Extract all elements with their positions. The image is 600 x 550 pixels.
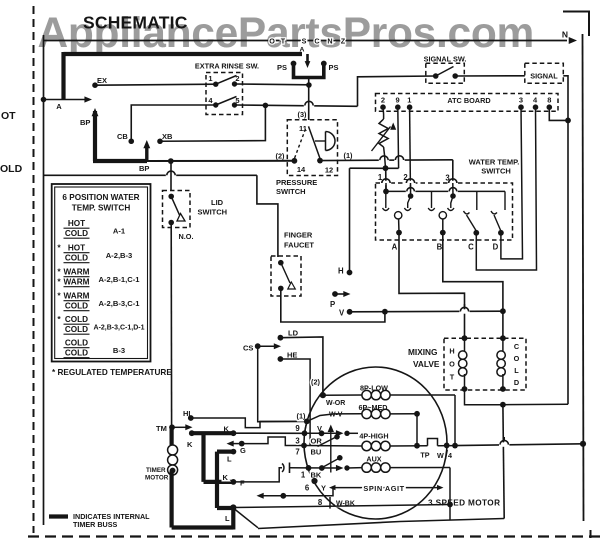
finger faucet top contact <box>278 260 284 266</box>
svg-text:W: W <box>437 451 444 460</box>
node: left top corner stub <box>43 35 45 41</box>
svg-text:EXTRA RINSE SW.: EXTRA RINSE SW. <box>195 62 259 71</box>
svg-text:K: K <box>223 473 229 482</box>
wire: extra rinse 2 to pressure switch stem node <box>235 83 310 86</box>
svg-text:BK: BK <box>311 471 322 480</box>
pressure switch terminal 14 <box>292 158 298 164</box>
svg-text:COLD: COLD <box>65 229 88 238</box>
wire: valve common to right inner rail <box>503 403 568 406</box>
timer buss BP: thick vertical with up arrow <box>92 108 99 116</box>
terminal P with arrow <box>332 291 338 297</box>
svg-text:MOTOR: MOTOR <box>145 475 169 482</box>
svg-text:N: N <box>327 37 332 46</box>
node: L / W-BK junction <box>230 504 236 510</box>
legend: thick sample line <box>49 514 68 518</box>
svg-text:(2): (2) <box>311 378 320 387</box>
svg-text:A: A <box>392 243 398 252</box>
svg-text:COLD: COLD <box>65 302 88 311</box>
hop: contact5 line over PS stem <box>304 103 314 107</box>
switch: LID SWITCH dashed box <box>163 191 191 228</box>
wire: 8P right drop to W/4 row <box>454 395 456 446</box>
wire: H branch horizontal <box>350 167 399 169</box>
svg-text:1: 1 <box>301 471 306 480</box>
wire: AUX right drop to W-BK row <box>449 468 451 505</box>
wire: top line L1 to N <box>44 40 568 42</box>
svg-text:A-2,B-3: A-2,B-3 <box>106 251 133 260</box>
svg-text:F: F <box>240 479 245 488</box>
svg-text:B-3: B-3 <box>113 346 125 355</box>
svg-text:T: T <box>450 373 455 382</box>
terminal EX <box>92 82 98 88</box>
svg-text:K: K <box>187 440 193 449</box>
WTS switch B: left contact arc <box>431 191 433 208</box>
svg-text:8: 8 <box>547 95 551 104</box>
extra rinse blade 1-2 <box>216 76 237 85</box>
terminal PS (right) <box>321 61 327 67</box>
svg-text:COLD: COLD <box>65 315 88 324</box>
connector symbol )| <box>282 464 284 472</box>
svg-text:SWITCH: SWITCH <box>481 167 511 176</box>
svg-text:Y: Y <box>321 484 326 493</box>
arrow terminal to spin-agit row <box>257 493 264 499</box>
timer dial cam letters O T S C N Z <box>269 37 346 46</box>
svg-text:SPIN AGIT: SPIN AGIT <box>363 484 404 493</box>
svg-text:COLD: COLD <box>65 339 88 348</box>
node A + wire with arrow <box>41 97 47 103</box>
mixing valve HOT coil <box>462 335 468 341</box>
svg-text:H: H <box>338 267 344 276</box>
wire: W-BK row from L node <box>233 505 450 508</box>
svg-text:HOT: HOT <box>68 244 85 253</box>
motor: 3 SPEED MOTOR ellipse <box>304 367 447 519</box>
mixing valve COLD coil <box>500 335 506 341</box>
node (1) <box>304 419 310 425</box>
terminal XB + wire up to node on contact-5 line <box>157 138 163 144</box>
svg-text:SWITCH: SWITCH <box>198 208 228 217</box>
svg-text:HE: HE <box>287 351 297 360</box>
thick U bracket joining PS terminals <box>294 64 324 78</box>
thermistor (variable resistor) from ATC terminal 2 <box>382 107 385 119</box>
svg-text:COLD: COLD <box>65 254 88 263</box>
wire: BP to pressure switch terminal 14 <box>147 160 294 162</box>
WTS switch A: moving contact circle <box>395 212 402 219</box>
svg-text:C: C <box>514 342 520 351</box>
svg-text:6: 6 <box>305 484 310 493</box>
terminal G with left arrow + wire to motor terminal 3 <box>227 441 234 447</box>
svg-text:OT: OT <box>1 110 16 122</box>
svg-text:CB: CB <box>117 132 128 141</box>
lid switch bottom contact <box>168 220 174 226</box>
wire: valve common down to bottom bus <box>503 405 504 519</box>
svg-text:XB: XB <box>162 132 173 141</box>
wire: extra rinse 5 to signal switch (staircase) <box>235 105 358 106</box>
svg-text:O: O <box>514 354 520 363</box>
svg-text:COLD: COLD <box>65 325 88 334</box>
WTS entry hops on top edge <box>381 181 391 185</box>
wire: WTS D up to ATC terminal 3 <box>501 107 523 259</box>
svg-text:1: 1 <box>407 95 411 104</box>
svg-text:O: O <box>269 37 275 46</box>
svg-text:CS: CS <box>243 344 253 353</box>
svg-text:B: B <box>437 243 443 252</box>
border left dashed <box>33 6 35 533</box>
svg-text:11: 11 <box>299 124 307 133</box>
signal switch contacts + blade <box>433 73 439 79</box>
svg-text:PS: PS <box>277 63 287 72</box>
lid switch blade + N.O. contact triangle <box>171 196 179 215</box>
svg-text:9: 9 <box>295 424 300 433</box>
svg-text:1: 1 <box>208 74 212 83</box>
svg-text:ATC BOARD: ATC BOARD <box>447 96 490 105</box>
wire EX to extra rinse contact 1 <box>95 84 216 85</box>
pressure switch dashed blade 11-14 <box>295 129 306 158</box>
svg-text:4P-HIGH: 4P-HIGH <box>359 432 388 441</box>
switch: FINGER FAUCET dashed box <box>271 256 301 296</box>
svg-text:SIGNAL SW.: SIGNAL SW. <box>424 55 467 64</box>
svg-text:T: T <box>281 37 286 46</box>
svg-text:WARM: WARM <box>64 292 90 301</box>
svg-text:LD: LD <box>288 329 299 338</box>
WTS switch A: right contact arc fed by terminal 2 <box>408 196 411 208</box>
pressure switch terminal 12 <box>317 158 323 164</box>
svg-text:(1): (1) <box>297 412 306 421</box>
WTS switch A: left contact arc <box>385 191 387 208</box>
WTS terminal 3 junction <box>452 183 454 196</box>
svg-text:A-2,B-3,C-1: A-2,B-3,C-1 <box>99 299 141 308</box>
terminal H <box>347 270 353 276</box>
node: 8P winding start (W-OR) <box>320 392 326 398</box>
svg-text:9: 9 <box>396 95 400 104</box>
wire: bottom bus <box>258 519 504 529</box>
svg-text:BP: BP <box>80 118 90 127</box>
svg-text:P: P <box>330 300 335 309</box>
svg-text:WATER TEMP.: WATER TEMP. <box>469 158 520 167</box>
wire: ATC 8 to right inner rail <box>549 107 568 120</box>
centrifugal blade upper <box>318 437 338 447</box>
svg-text:AUX: AUX <box>366 455 381 464</box>
terminal CB + wire up to extra rinse contact 4 <box>128 138 134 144</box>
svg-text:TIMER BUSS: TIMER BUSS <box>73 520 118 529</box>
svg-text:(2): (2) <box>276 152 285 161</box>
table: 6 POSITION WATER TEMP SWITCH box <box>52 184 151 362</box>
svg-text:3: 3 <box>519 95 523 104</box>
timer motor coil + thick feed <box>170 427 174 449</box>
svg-text:L: L <box>227 455 232 464</box>
timer buss: arrow down at right end of top thick line <box>306 54 309 62</box>
WTS terminal 2 junction <box>410 183 412 196</box>
wire: HOT bottom to COLD bottom node <box>465 389 503 405</box>
svg-text:14: 14 <box>297 165 306 174</box>
lid switch top contact <box>168 194 174 200</box>
svg-text:WARM: WARM <box>64 278 90 287</box>
wire: left vertical rail <box>43 41 45 526</box>
wire: ATC 1 down to WTS terminal 2 <box>409 107 412 196</box>
svg-text:OLD: OLD <box>0 163 23 175</box>
svg-text:H: H <box>449 347 454 356</box>
svg-text:W-V: W-V <box>329 412 343 419</box>
svg-text:(1): (1) <box>344 151 353 160</box>
svg-text:3: 3 <box>295 437 300 446</box>
switch: SIGNAL SW dashed box <box>426 63 465 83</box>
terminal F + wire to motor terminal 1 via connector <box>231 479 237 485</box>
svg-text:C: C <box>468 243 474 252</box>
terminal PS (left) <box>291 61 297 67</box>
wire: right vertical rail (N) <box>583 34 584 521</box>
timer buss L: thick bracket <box>217 450 233 454</box>
component: MIXING VALVE dashed box <box>444 338 526 390</box>
svg-text:HOT: HOT <box>68 219 85 228</box>
wire: left rail to finger faucet (staircase) <box>44 174 257 176</box>
svg-text:PS: PS <box>329 63 339 72</box>
WTS output A <box>398 219 400 233</box>
wire: W-BK drop to bottom bus <box>449 505 451 521</box>
wire: PS bracket stem down to pressure switch 11 <box>308 78 310 121</box>
centrifugal switch actuator arrow <box>328 425 334 433</box>
wire patch: valve drop through hop <box>503 437 505 442</box>
finger faucet blade + triangle contact <box>281 263 290 283</box>
extra rinse blade 4-5 <box>216 97 237 106</box>
pressure switch solid blade 11-12 <box>309 126 321 158</box>
wire: finger faucet to V line <box>281 288 385 322</box>
table rows <box>57 219 144 358</box>
svg-text:O: O <box>449 360 455 369</box>
svg-text:SWITCH: SWITCH <box>276 187 306 196</box>
timer buss BP: second up arrow <box>145 145 148 161</box>
svg-text:VALVE: VALVE <box>413 359 440 369</box>
svg-text:FAUCET: FAUCET <box>284 241 314 250</box>
switch: PRESSURE SWITCH dashed box <box>287 120 337 176</box>
timer buss: top thick line <box>64 52 303 56</box>
svg-text:SIGNAL: SIGNAL <box>530 72 558 81</box>
svg-text:(3): (3) <box>298 110 307 119</box>
svg-text:12: 12 <box>325 166 333 175</box>
svg-text:PRESSURE: PRESSURE <box>276 178 317 187</box>
svg-text:SCHEMATIC: SCHEMATIC <box>83 13 188 33</box>
svg-text:4: 4 <box>448 451 452 460</box>
wire: W/4 line to right rail <box>455 444 583 446</box>
wire: SIGNAL output to right inner rail <box>563 76 568 404</box>
wire: K to motor terminal 9 <box>233 432 304 434</box>
svg-text:TP: TP <box>420 451 429 460</box>
svg-text:TEMP. SWITCH: TEMP. SWITCH <box>72 204 131 213</box>
svg-text:* REGULATED TEMPERATURE: * REGULATED TEMPERATURE <box>52 368 172 377</box>
svg-text:COLD: COLD <box>65 349 88 358</box>
switch: WATER TEMP SWITCH dashed box <box>376 183 513 240</box>
svg-text:C: C <box>314 37 319 46</box>
svg-text:A-2,B-1,C-1: A-2,B-1,C-1 <box>99 275 141 284</box>
wire: 6P right drop <box>416 414 418 446</box>
wire: WTS B to mixing valve COLD <box>443 233 503 339</box>
svg-text:W-OR: W-OR <box>326 400 345 407</box>
svg-text:N.O.: N.O. <box>179 232 194 241</box>
wire: thermistor node down to WTS terminal 1 <box>385 168 387 191</box>
timer buss: left thick vertical <box>61 52 65 100</box>
timer buss: K drop to F <box>201 433 205 482</box>
svg-text:MIXING: MIXING <box>408 347 438 357</box>
centrifugal blade lower <box>320 458 340 469</box>
svg-text:FINGER: FINGER <box>284 231 313 240</box>
svg-text:7: 7 <box>295 448 299 457</box>
border top-right corner <box>563 12 589 37</box>
svg-text:V: V <box>339 309 345 318</box>
wire: WTS C up to ATC terminal 4 <box>476 107 536 270</box>
border bottom-right piece <box>590 530 592 538</box>
svg-text:TIMER: TIMER <box>146 467 166 474</box>
WTS output B <box>442 219 444 233</box>
border bottom dashed <box>28 535 600 537</box>
svg-text:D: D <box>493 243 499 252</box>
svg-text:G: G <box>240 446 246 455</box>
svg-text:N: N <box>562 30 568 40</box>
WTS switch B: right contact arc fed by terminal 3 <box>451 196 453 208</box>
component: SIGNAL dashed box <box>525 63 564 83</box>
svg-text:A-2,B-3,C-1,D-1: A-2,B-3,C-1,D-1 <box>94 325 145 332</box>
timer buss: bottom return to L <box>172 525 234 529</box>
timer buss BP: thick horizontal <box>93 159 147 163</box>
svg-text:D: D <box>514 378 519 387</box>
wire: H branch down to terminal H <box>349 168 351 272</box>
svg-text:6 POSITION WATER: 6 POSITION WATER <box>62 193 139 202</box>
svg-text:TM: TM <box>156 424 167 433</box>
svg-text:A-1: A-1 <box>113 227 126 236</box>
svg-text:BU: BU <box>311 448 322 457</box>
svg-text:L: L <box>514 366 519 375</box>
WTS switch D: feed from rail corner + pivot arc + blade <box>504 191 506 210</box>
wire: node to lid switch <box>170 161 172 190</box>
wire: diagonal from L node to bottom bus <box>235 509 259 528</box>
svg-text:S: S <box>302 37 307 46</box>
WTS switch C: feed + pivot arc + blade <box>476 191 478 210</box>
thermistor arrow <box>372 127 391 152</box>
wire: signal switch to SIGNAL <box>455 75 525 77</box>
switch: extra rinse dashed box <box>206 73 243 115</box>
svg-text:Z: Z <box>341 37 346 46</box>
svg-text:BP: BP <box>139 164 149 173</box>
svg-text:EX: EX <box>97 76 107 85</box>
wire: ATC 9 down to H-branch line <box>397 107 400 168</box>
wire: WTS A to mixing valve HOT <box>399 233 465 339</box>
svg-text:L: L <box>225 514 230 523</box>
pressure switch diaphragm horn <box>315 140 326 142</box>
svg-text:3 SPEED MOTOR: 3 SPEED MOTOR <box>428 499 500 508</box>
wire: pressure switch 12 to water temp switch 3 <box>320 159 453 162</box>
svg-text:WARM: WARM <box>64 268 90 277</box>
svg-text:A: A <box>56 102 62 111</box>
wire: lid switch down to TM node <box>170 223 172 428</box>
TP tap notch <box>428 439 438 446</box>
wire patch: A staircase vertical through hop <box>464 304 466 309</box>
WTS internal rail from terminal 1 <box>385 183 387 191</box>
svg-text:2: 2 <box>381 95 385 104</box>
WTS switch B: moving contact circle <box>439 212 446 219</box>
svg-text:LID: LID <box>211 198 224 207</box>
wire: CS down to motor (1) node <box>258 346 307 422</box>
finger faucet bottom contact <box>278 286 284 292</box>
component: ATC BOARD dashed box <box>376 94 559 112</box>
